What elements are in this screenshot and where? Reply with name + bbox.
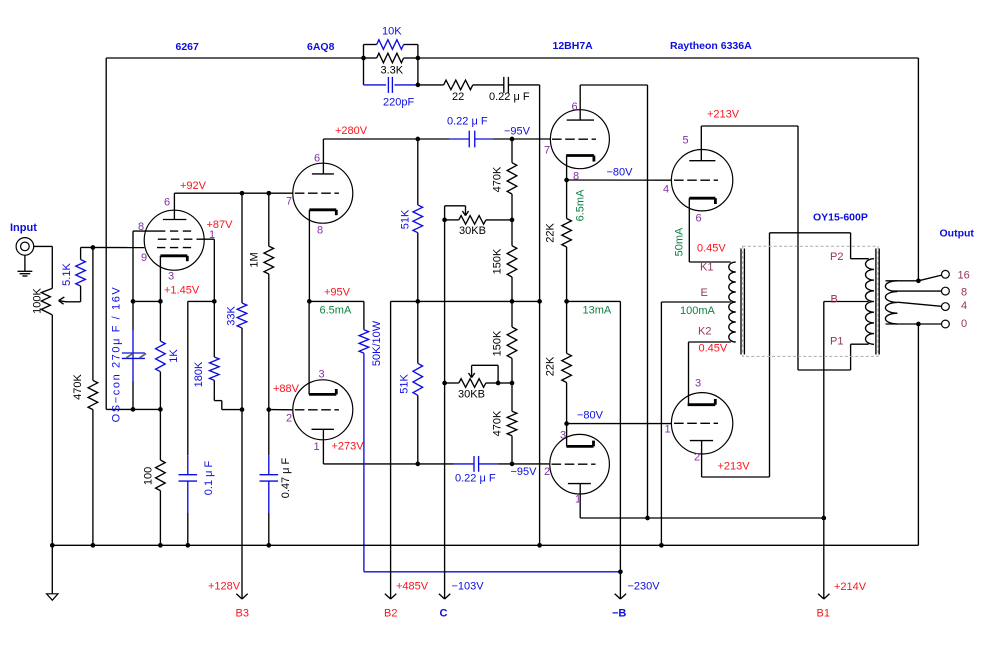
svg-text:Raytheon 6336A: Raytheon 6336A — [670, 40, 752, 52]
svg-text:3: 3 — [695, 378, 701, 390]
svg-text:+280V: +280V — [335, 125, 368, 137]
svg-text:0.47 μ F: 0.47 μ F — [280, 457, 292, 498]
svg-text:6267: 6267 — [176, 41, 200, 53]
svg-text:−230V: −230V — [628, 581, 661, 593]
svg-text:7: 7 — [544, 144, 550, 156]
svg-text:2: 2 — [544, 466, 550, 478]
svg-text:8: 8 — [317, 225, 323, 237]
svg-text:6.5mA: 6.5mA — [320, 305, 352, 317]
svg-text:22K: 22K — [544, 356, 556, 376]
svg-text:470K: 470K — [72, 373, 84, 399]
svg-text:0.22 μ F: 0.22 μ F — [447, 116, 488, 128]
svg-text:30KB: 30KB — [459, 225, 486, 237]
svg-text:+485V: +485V — [396, 581, 429, 593]
svg-text:6: 6 — [572, 101, 578, 113]
svg-text:B3: B3 — [236, 608, 249, 620]
svg-text:Input: Input — [10, 222, 37, 234]
svg-text:−80V: −80V — [577, 410, 604, 422]
svg-text:−95V: −95V — [504, 126, 531, 138]
svg-text:OY15-600P: OY15-600P — [813, 212, 868, 224]
svg-text:+92V: +92V — [180, 180, 207, 192]
svg-text:3: 3 — [168, 271, 174, 283]
svg-text:P2: P2 — [830, 251, 843, 263]
svg-text:470K: 470K — [491, 410, 503, 436]
svg-text:Output: Output — [940, 228, 975, 240]
svg-text:50K/10W: 50K/10W — [371, 320, 383, 366]
svg-text:B1: B1 — [817, 608, 830, 620]
svg-text:22K: 22K — [544, 223, 556, 243]
svg-text:0.1 μ F: 0.1 μ F — [203, 460, 215, 495]
svg-text:6: 6 — [314, 153, 320, 165]
svg-text:0.22 μ F: 0.22 μ F — [489, 91, 530, 103]
svg-text:6: 6 — [696, 213, 702, 225]
svg-text:+95V: +95V — [324, 287, 351, 299]
svg-text:P1: P1 — [830, 336, 843, 348]
svg-text:7: 7 — [286, 196, 292, 208]
svg-text:−B: −B — [612, 608, 626, 620]
svg-text:K1: K1 — [700, 262, 713, 274]
svg-text:+213V: +213V — [707, 109, 740, 121]
svg-text:4: 4 — [961, 300, 967, 312]
svg-text:0.22 μ F: 0.22 μ F — [455, 472, 496, 484]
svg-text:30KB: 30KB — [458, 389, 485, 401]
svg-text:1: 1 — [575, 494, 581, 506]
svg-text:22: 22 — [452, 91, 464, 103]
svg-text:51K: 51K — [398, 374, 410, 394]
svg-text:8: 8 — [138, 221, 144, 233]
svg-text:9: 9 — [141, 252, 147, 264]
svg-text:8: 8 — [573, 170, 579, 182]
svg-text:3: 3 — [560, 430, 566, 442]
svg-text:150K: 150K — [491, 330, 503, 356]
svg-text:C: C — [440, 608, 448, 620]
svg-text:0.45V: 0.45V — [699, 343, 728, 355]
svg-text:100K: 100K — [32, 287, 44, 313]
svg-text:33K: 33K — [225, 306, 237, 326]
svg-text:OS−con 270μ F / 16V: OS−con 270μ F / 16V — [110, 286, 122, 423]
svg-text:6: 6 — [164, 197, 170, 209]
svg-text:0.45V: 0.45V — [697, 243, 726, 255]
svg-text:1K: 1K — [168, 349, 180, 363]
svg-text:5.1K: 5.1K — [61, 263, 73, 286]
svg-text:470K: 470K — [491, 166, 503, 192]
svg-text:6.5mA: 6.5mA — [574, 189, 586, 221]
svg-text:+273V: +273V — [332, 441, 365, 453]
svg-text:+88V: +88V — [273, 383, 300, 395]
svg-text:−103V: −103V — [452, 581, 485, 593]
svg-text:−80V: −80V — [607, 167, 634, 179]
svg-text:6AQ8: 6AQ8 — [307, 41, 335, 53]
svg-text:2: 2 — [286, 413, 292, 425]
svg-text:0: 0 — [961, 318, 967, 330]
svg-text:3: 3 — [319, 369, 325, 381]
svg-text:+1.45V: +1.45V — [164, 285, 200, 297]
svg-text:16: 16 — [958, 270, 970, 282]
svg-text:3.3K: 3.3K — [381, 65, 404, 77]
svg-text:E: E — [701, 287, 708, 299]
svg-text:−95V: −95V — [511, 466, 538, 478]
svg-text:13mA: 13mA — [583, 305, 612, 317]
svg-text:K2: K2 — [698, 326, 711, 338]
svg-text:150K: 150K — [491, 248, 503, 274]
svg-text:+214V: +214V — [834, 581, 867, 593]
svg-text:1: 1 — [314, 441, 320, 453]
svg-text:180K: 180K — [193, 361, 205, 387]
svg-text:5: 5 — [683, 135, 689, 147]
svg-text:1: 1 — [209, 229, 215, 241]
svg-text:B2: B2 — [384, 608, 397, 620]
svg-text:+128V: +128V — [208, 581, 241, 593]
svg-text:100mA: 100mA — [680, 305, 716, 317]
svg-text:100: 100 — [142, 467, 154, 485]
svg-text:B: B — [831, 294, 838, 306]
svg-text:10K: 10K — [382, 26, 402, 38]
svg-text:8: 8 — [961, 287, 967, 299]
svg-text:1: 1 — [665, 424, 671, 436]
svg-text:1M: 1M — [248, 252, 260, 267]
svg-text:2: 2 — [694, 452, 700, 464]
svg-text:220pF: 220pF — [383, 97, 414, 109]
svg-text:4: 4 — [663, 184, 669, 196]
svg-text:+213V: +213V — [718, 461, 751, 473]
svg-text:12BH7A: 12BH7A — [553, 40, 594, 52]
svg-text:50mA: 50mA — [673, 227, 685, 256]
svg-text:51K: 51K — [399, 209, 411, 229]
